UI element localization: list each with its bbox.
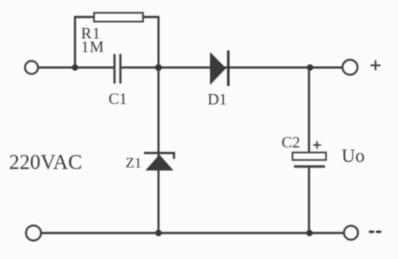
wire bottom rail: [41, 232, 344, 234]
terminal output minus bottom-right: [344, 226, 358, 240]
label plus output: [371, 60, 381, 70]
resistor R1 body: [94, 13, 143, 22]
capacitor C2 electrolytic positive plate: [293, 153, 327, 161]
svg-text:C2: C2: [282, 135, 301, 152]
svg-text:Z1: Z1: [126, 156, 142, 172]
node junction right at C2 tap: [307, 64, 313, 70]
svg-text:Uo: Uo: [342, 146, 365, 167]
svg-text:220VAC: 220VAC: [9, 150, 82, 174]
terminal output plus top-right: [343, 60, 358, 75]
capacitor C2 negative plate: [294, 165, 325, 168]
wire Z1 branch vertical: [157, 68, 159, 234]
node junction bottom C2: [306, 230, 312, 236]
zener diode Z1: [144, 153, 174, 171]
wire C2 branch vertical: [308, 68, 310, 153]
label minus output: [369, 231, 381, 234]
label plus of C2: [313, 141, 321, 149]
node junction mid at Z1 tap: [155, 64, 162, 71]
svg-text:D1: D1: [208, 92, 228, 109]
capacitor C1 plates: [115, 54, 121, 84]
wire top: C1 right plate to output junction: [122, 66, 343, 68]
wire R1 branch loop: [75, 17, 159, 68]
wire top: input terminal to C1 left plate: [38, 66, 114, 68]
wire C2 bottom lead: [308, 167, 310, 234]
terminal input bottom-left: [26, 226, 41, 241]
svg-text:C1: C1: [109, 91, 128, 108]
terminal input top-left: [25, 61, 38, 74]
diode D1: [210, 51, 228, 87]
svg-text:1M: 1M: [81, 39, 104, 56]
node junction bottom Z1: [155, 230, 161, 236]
node junction left at R1 tap: [72, 64, 78, 70]
